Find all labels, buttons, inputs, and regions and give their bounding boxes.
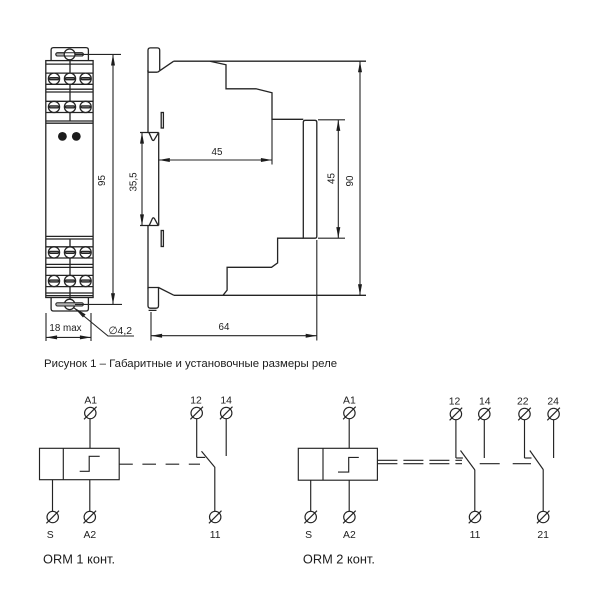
terminal row 2 channel lines (46, 100, 93, 102)
dimension 90 bottom arrow (358, 284, 362, 295)
contact 1 fixed tick (schematic 2) (456, 457, 463, 459)
dimension 64 line (151, 335, 317, 337)
svg-text:14: 14 (479, 397, 491, 408)
svg-text:90: 90 (345, 175, 356, 186)
svg-text:12: 12 (449, 397, 461, 408)
terminal S (schematic 2) (304, 511, 317, 524)
side view top DIN tab (148, 48, 160, 72)
dimension 45 vertical bottom arrow (336, 227, 340, 238)
svg-text:Рисунок 1 – Габаритные и устан: Рисунок 1 – Габаритные и установочные ра… (44, 358, 337, 370)
svg-text:S: S (47, 530, 54, 541)
wire 22 (schematic 2) (524, 420, 526, 458)
side view body bottom edge with 90 extension (174, 294, 366, 296)
terminal screws row 4 (48, 275, 91, 286)
dimension 18 max left arrow (46, 335, 57, 339)
svg-text:A2: A2 (343, 530, 356, 541)
dimension 90 top arrow (358, 61, 362, 72)
wire 24 open end (schematic 2) (553, 420, 555, 458)
terminal screws row 3 (48, 247, 91, 258)
dimension 95 bottom arrow (111, 293, 115, 304)
contact 2 moving arm (schematic 2) (530, 451, 543, 470)
svg-text:A2: A2 (83, 530, 96, 541)
coil box divider (S section) (62, 448, 64, 479)
dimension 35,5 top arrow (140, 133, 144, 144)
wire 21 (schematic 2) (542, 469, 544, 511)
svg-text:14: 14 (220, 396, 232, 407)
side view DIN clip bottom notch V (149, 218, 158, 226)
terminal block 2 bottom double line (46, 292, 93, 294)
dimension 95 top extension line (75, 53, 121, 55)
dimension 64 right extension (316, 240, 318, 341)
terminal 21 (schematic 2) (537, 511, 550, 524)
terminal S (schematic 1) (46, 511, 59, 524)
terminal screws row 2 (48, 101, 91, 112)
dimension 35,5 line (141, 133, 143, 226)
dimension 45 horizontal right arrow (261, 158, 272, 162)
dimension 64 left arrow (151, 334, 162, 338)
dimension 18 max left extension line (45, 313, 47, 341)
wire 14 open end (schematic 2) (483, 420, 485, 458)
dimension 18 max right extension line (90, 313, 92, 341)
bottom mounting screw slot (56, 303, 84, 306)
front view top mounting tab (51, 48, 88, 61)
mechanical link double dashed wire lower (377, 463, 462, 465)
terminal block 1 bottom double line (46, 120, 93, 122)
wire 11 (schematic 2) (474, 470, 476, 512)
bottom mounting screw head (64, 299, 74, 309)
terminal A2 (schematic 2) (343, 511, 356, 524)
svg-text:21: 21 (537, 530, 549, 541)
coil switching-function symbol (schematic 2) (338, 457, 359, 472)
side view front plate (303, 120, 317, 238)
dimension 45 vertical top arrow (336, 120, 340, 131)
LED indicators (58, 132, 67, 141)
side view body top edge with 90 extension (174, 60, 366, 62)
terminal block 2 separator double line (46, 263, 93, 265)
dimension 95 bottom extension line (75, 303, 122, 305)
dimension 45 vertical top extension (318, 119, 345, 121)
svg-text:11: 11 (470, 530, 481, 541)
svg-text:11: 11 (210, 530, 221, 541)
terminal 11 (schematic 1) (209, 511, 222, 524)
terminal 24 (schematic 2) (547, 408, 560, 421)
terminal block 2 top double line (46, 235, 93, 237)
terminal 14 (schematic 2) (478, 408, 491, 421)
svg-text:35,5: 35,5 (129, 172, 140, 192)
svg-text:45: 45 (212, 147, 223, 158)
top mounting screw head (64, 49, 75, 60)
terminal 22 (schematic 2) (518, 408, 531, 421)
terminal A1 (schematic 1) (84, 407, 97, 420)
side view top step profile (210, 61, 303, 119)
svg-text:95: 95 (97, 175, 108, 186)
side view DIN clip top notch tick (140, 132, 159, 134)
diameter 4,2 leader arrow (74, 308, 85, 318)
wire 12 (schematic 2) (455, 420, 457, 458)
side view lower vent slot (161, 231, 163, 247)
dimension 95 top arrow (111, 54, 115, 65)
contact fixed tick 12 (197, 456, 206, 458)
side view top diagonal to body (158, 61, 174, 72)
dimension 45 horizontal line (159, 159, 272, 161)
dimension 45 horizontal left arrow (159, 158, 170, 162)
svg-text:A1: A1 (343, 396, 356, 407)
wire 14 open end (225, 419, 227, 456)
side view DIN clip bottom notch tick (140, 225, 159, 227)
wire S (schematic 2) (310, 480, 312, 511)
svg-text:∅4,2: ∅4,2 (109, 326, 133, 337)
contact 2 fixed tick (schematic 2) (525, 457, 532, 459)
side view DIN groove recessed edge (158, 133, 160, 226)
dimension 45 vertical bottom extension (318, 237, 345, 239)
dimension 95 line (112, 54, 114, 304)
dimension 18 max line (46, 336, 91, 338)
dimension 35,5 bottom arrow (140, 214, 144, 225)
wire 12 to contact (196, 419, 198, 458)
side view bottom DIN tab (148, 288, 159, 311)
front view: relay module body (46, 61, 93, 298)
dimension 64 right arrow (306, 334, 317, 338)
wire A2 (schematic 2) (348, 480, 350, 511)
svg-text:A1: A1 (84, 396, 97, 407)
svg-text:ORM 2 конт.: ORM 2 конт. (303, 552, 375, 567)
front view top strip line (46, 63, 93, 65)
contact 1 moving arm (schematic 2) (461, 451, 475, 470)
mechanical link double dashed wire upper (377, 459, 462, 461)
svg-text:24: 24 (547, 397, 559, 408)
terminal 12 (schematic 1) (190, 407, 203, 420)
dimension 18 max right arrow (80, 335, 91, 339)
terminal A1 (schematic 2) (343, 407, 356, 420)
side view bottom step profile (223, 238, 303, 295)
dimension 45 horizontal right extension (271, 119, 273, 164)
side view DIN clip top notch V (149, 133, 158, 141)
terminal row 4 channel lines (46, 274, 93, 276)
coil box divider (S section, schematic 2) (322, 448, 324, 480)
front view bottom mounting tab (51, 298, 88, 312)
mechanical link dashed wire (119, 463, 200, 465)
wire A1 to coil (89, 419, 91, 448)
top mounting screw slot lines over head (56, 53, 84, 56)
svg-text:12: 12 (190, 396, 202, 407)
terminal row 3 channel lines (46, 246, 93, 248)
coil switching-function symbol (80, 456, 100, 471)
svg-text:22: 22 (517, 397, 529, 408)
wire A2 (89, 480, 91, 512)
contact moving arm 11-12 (202, 451, 215, 467)
svg-text:18 max: 18 max (49, 323, 81, 334)
relay coil box K1 (40, 448, 120, 479)
terminal block 1 separator double line (46, 88, 93, 90)
wire 11 (214, 467, 216, 511)
side view upper vent slot (161, 113, 163, 129)
side view left edge lower (147, 226, 149, 289)
side view left edge upper (147, 70, 149, 133)
wire A1 to coil (schematic 2) (348, 419, 350, 448)
svg-text:S: S (305, 530, 312, 541)
wire S (52, 480, 54, 512)
terminal 12 (schematic 2) (450, 408, 463, 421)
relay coil box K2 (298, 448, 377, 480)
dimension 90 line (359, 61, 361, 295)
terminal A2 (schematic 1) (84, 511, 97, 524)
terminal 14 (schematic 1) (220, 407, 233, 420)
dimension 45 vertical line (337, 120, 339, 238)
diameter 4,2 leader line (74, 308, 135, 337)
mechanical link dashed wire between contacts (480, 463, 531, 465)
center line segments (69, 60, 71, 73)
svg-text:64: 64 (219, 322, 230, 333)
terminal 11 (schematic 2) (469, 511, 482, 524)
top mounting screw slot (56, 53, 84, 56)
side view bottom diagonal to tab (159, 288, 175, 296)
dimension 64 left extension (150, 312, 152, 341)
terminal screws row 1 (48, 73, 91, 84)
terminal row 1 channel lines (46, 72, 93, 74)
svg-text:45: 45 (327, 173, 338, 184)
svg-text:ORM 1 конт.: ORM 1 конт. (43, 552, 115, 567)
